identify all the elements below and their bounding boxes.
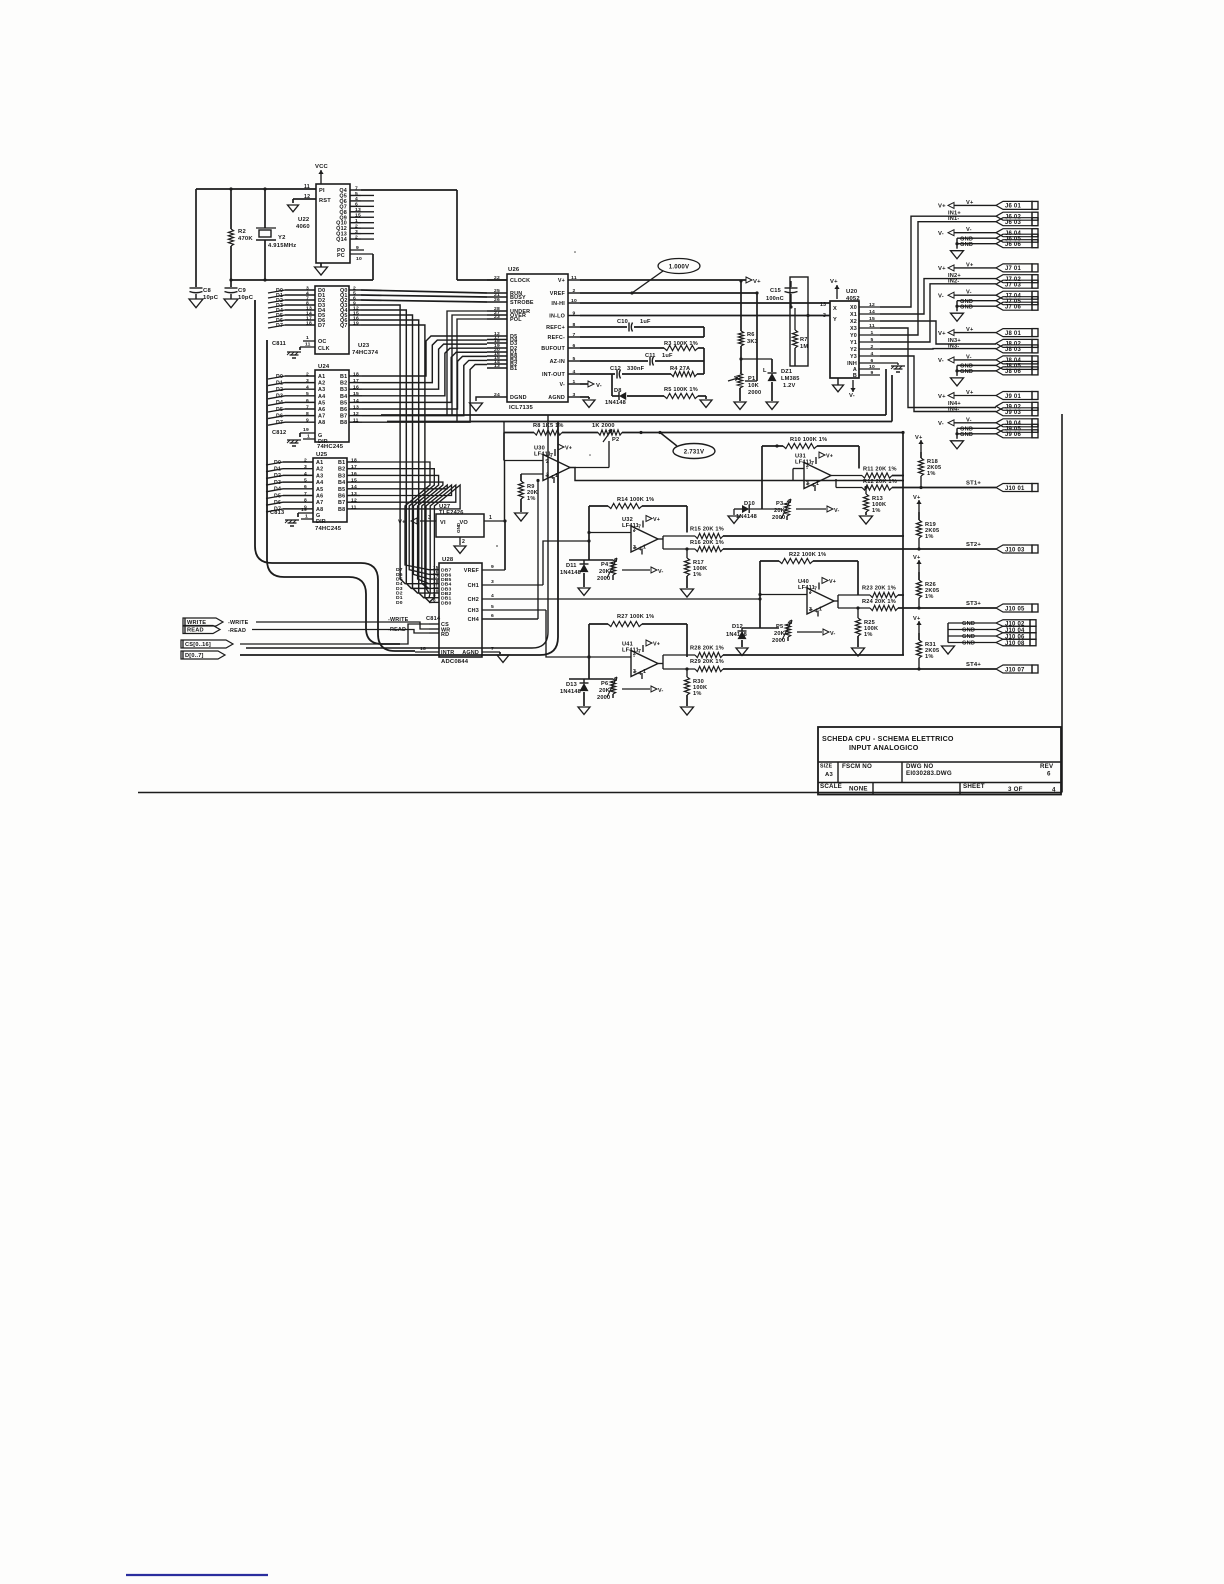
svg-text:4: 4 bbox=[639, 671, 642, 677]
svg-text:J6 03: J6 03 bbox=[1005, 220, 1021, 226]
svg-text:1N4148: 1N4148 bbox=[605, 400, 626, 406]
svg-text:V-: V- bbox=[938, 421, 944, 427]
svg-text:CH4: CH4 bbox=[468, 617, 479, 623]
svg-text:17: 17 bbox=[353, 378, 359, 384]
svg-text:6: 6 bbox=[304, 484, 307, 490]
svg-text:DZ1: DZ1 bbox=[781, 369, 792, 375]
svg-text:11: 11 bbox=[305, 342, 311, 348]
svg-text:R24 20K 1%: R24 20K 1% bbox=[862, 599, 896, 605]
svg-text:CH1: CH1 bbox=[468, 583, 479, 589]
svg-text:P3: P3 bbox=[776, 501, 783, 507]
svg-text:X: X bbox=[833, 306, 837, 312]
svg-text:R10 100K 1%: R10 100K 1% bbox=[790, 437, 827, 443]
svg-text:GND: GND bbox=[960, 432, 973, 438]
svg-text:R22 100K 1%: R22 100K 1% bbox=[789, 552, 826, 558]
svg-text:J7 03: J7 03 bbox=[1005, 283, 1021, 289]
svg-text:GND: GND bbox=[960, 305, 973, 311]
svg-text:11: 11 bbox=[351, 504, 357, 510]
svg-text:4: 4 bbox=[491, 593, 494, 599]
svg-text:1uF: 1uF bbox=[640, 319, 651, 325]
svg-text:R29 20K 1%: R29 20K 1% bbox=[690, 659, 724, 665]
svg-text:A4: A4 bbox=[318, 394, 325, 400]
svg-text:X1: X1 bbox=[850, 312, 857, 318]
svg-text:7: 7 bbox=[550, 453, 553, 459]
svg-text:J10 03: J10 03 bbox=[1005, 547, 1025, 553]
svg-text:REV: REV bbox=[1040, 763, 1054, 770]
svg-text:10pC: 10pC bbox=[203, 295, 219, 301]
svg-text:V+: V+ bbox=[398, 520, 406, 526]
svg-text:1%: 1% bbox=[693, 691, 702, 697]
svg-text:3: 3 bbox=[573, 392, 576, 398]
svg-text:7: 7 bbox=[638, 525, 641, 531]
svg-text:B7: B7 bbox=[338, 500, 345, 506]
svg-text:-WRITE: -WRITE bbox=[228, 620, 249, 626]
svg-text:3: 3 bbox=[806, 481, 809, 487]
svg-text:OC: OC bbox=[318, 339, 327, 345]
svg-text:2000: 2000 bbox=[597, 695, 610, 701]
svg-text:U23: U23 bbox=[358, 343, 370, 349]
svg-text:ST4+: ST4+ bbox=[966, 662, 981, 668]
svg-text:CH3: CH3 bbox=[468, 608, 479, 614]
svg-text:IN2-: IN2- bbox=[948, 279, 959, 285]
svg-text:4: 4 bbox=[355, 196, 358, 202]
svg-text:8: 8 bbox=[433, 598, 436, 603]
svg-text:4060: 4060 bbox=[296, 224, 310, 230]
svg-text:A3: A3 bbox=[318, 387, 325, 393]
svg-text:EI030283.DWG: EI030283.DWG bbox=[906, 770, 952, 777]
svg-text:13: 13 bbox=[355, 207, 361, 213]
svg-text:A8: A8 bbox=[318, 420, 325, 426]
svg-text:2: 2 bbox=[304, 457, 307, 463]
svg-text:-READ: -READ bbox=[388, 627, 406, 633]
svg-text:B8: B8 bbox=[338, 507, 345, 513]
svg-text:B4: B4 bbox=[340, 394, 347, 400]
svg-text:1%: 1% bbox=[927, 471, 936, 477]
svg-text:7: 7 bbox=[304, 491, 307, 497]
svg-text:18: 18 bbox=[306, 320, 312, 326]
svg-text:R6: R6 bbox=[747, 332, 755, 338]
svg-text:P4: P4 bbox=[601, 562, 609, 568]
svg-text:INTR: INTR bbox=[441, 650, 454, 656]
svg-text:R11 20K 1%: R11 20K 1% bbox=[863, 467, 897, 473]
svg-text:SIZE: SIZE bbox=[820, 764, 833, 770]
svg-text:B1: B1 bbox=[338, 460, 345, 466]
svg-text:CLOCK: CLOCK bbox=[510, 278, 530, 284]
svg-text:D0: D0 bbox=[396, 600, 403, 606]
svg-text:Y2: Y2 bbox=[278, 235, 286, 241]
svg-text:J7 06: J7 06 bbox=[1005, 305, 1021, 311]
svg-text:10K: 10K bbox=[748, 383, 760, 389]
svg-text:V-: V- bbox=[966, 290, 972, 296]
svg-text:13: 13 bbox=[353, 404, 359, 410]
svg-text:5: 5 bbox=[355, 191, 358, 197]
svg-text:CS[0..16]: CS[0..16] bbox=[185, 642, 211, 648]
svg-text:X0: X0 bbox=[850, 305, 857, 311]
svg-text:1: 1 bbox=[816, 481, 819, 487]
svg-text:V+: V+ bbox=[966, 262, 974, 268]
svg-text:3 OF: 3 OF bbox=[1008, 786, 1023, 793]
svg-text:6: 6 bbox=[871, 358, 874, 364]
svg-text:1: 1 bbox=[643, 669, 646, 675]
svg-text:5: 5 bbox=[306, 391, 309, 397]
svg-text:18: 18 bbox=[420, 646, 426, 652]
svg-text:LF411: LF411 bbox=[795, 460, 812, 466]
svg-text:2: 2 bbox=[546, 459, 549, 465]
svg-text:1N4148: 1N4148 bbox=[560, 570, 581, 576]
svg-text:ADC0844: ADC0844 bbox=[441, 659, 469, 665]
svg-text:V+: V+ bbox=[558, 278, 565, 284]
svg-text:330nF: 330nF bbox=[627, 366, 645, 372]
svg-text:9: 9 bbox=[573, 311, 576, 317]
svg-text:V+: V+ bbox=[913, 555, 921, 561]
svg-text:4052: 4052 bbox=[846, 296, 860, 302]
svg-text:B1: B1 bbox=[340, 374, 347, 380]
svg-text:4: 4 bbox=[573, 369, 576, 375]
svg-text:J8 06: J8 06 bbox=[1005, 369, 1021, 375]
svg-text:B8: B8 bbox=[340, 420, 347, 426]
svg-text:18: 18 bbox=[353, 371, 359, 377]
svg-text:IN4-: IN4- bbox=[948, 406, 959, 412]
svg-text:V-: V- bbox=[938, 231, 944, 237]
svg-text:R23 20K 1%: R23 20K 1% bbox=[862, 586, 896, 592]
svg-text:B7: B7 bbox=[340, 414, 347, 420]
svg-text:10: 10 bbox=[356, 256, 362, 262]
svg-text:1%: 1% bbox=[925, 534, 934, 540]
svg-text:GND: GND bbox=[960, 369, 973, 375]
svg-text:V+: V+ bbox=[829, 579, 836, 585]
svg-text:J6 01: J6 01 bbox=[1005, 204, 1021, 210]
svg-text:11: 11 bbox=[571, 275, 577, 281]
svg-text:ST3+: ST3+ bbox=[966, 601, 981, 607]
svg-text:7: 7 bbox=[355, 185, 358, 191]
svg-text:1%: 1% bbox=[864, 632, 873, 638]
svg-text:2000: 2000 bbox=[597, 576, 610, 582]
svg-text:2.731V: 2.731V bbox=[684, 449, 705, 456]
svg-text:CH2: CH2 bbox=[468, 597, 479, 603]
svg-text:D13: D13 bbox=[566, 682, 577, 688]
svg-text:26: 26 bbox=[494, 297, 500, 303]
svg-text:LM385: LM385 bbox=[781, 376, 800, 382]
svg-text:B2: B2 bbox=[338, 467, 345, 473]
svg-text:1: 1 bbox=[555, 473, 558, 479]
svg-text:A3: A3 bbox=[825, 772, 833, 778]
svg-text:A7: A7 bbox=[316, 500, 323, 506]
svg-text:B5: B5 bbox=[340, 400, 347, 406]
svg-text:3: 3 bbox=[809, 607, 812, 613]
svg-text:R7: R7 bbox=[800, 337, 808, 343]
svg-text:18: 18 bbox=[351, 457, 357, 463]
svg-text:TLE2426: TLE2426 bbox=[439, 510, 464, 516]
svg-text:2: 2 bbox=[806, 463, 809, 469]
svg-text:AGND: AGND bbox=[548, 395, 565, 401]
svg-text:9: 9 bbox=[306, 418, 309, 424]
svg-text:SCHEDA CPU - SCHEMA ELETTRICO: SCHEDA CPU - SCHEMA ELETTRICO bbox=[822, 735, 954, 743]
svg-text:8: 8 bbox=[306, 411, 309, 417]
svg-text:2: 2 bbox=[306, 371, 309, 377]
svg-text:A5: A5 bbox=[316, 487, 323, 493]
svg-text:19: 19 bbox=[303, 427, 309, 433]
svg-text:C9: C9 bbox=[238, 288, 246, 294]
svg-text:Q7: Q7 bbox=[340, 323, 348, 329]
svg-text:Y: Y bbox=[833, 317, 837, 323]
svg-text:6: 6 bbox=[355, 202, 358, 208]
svg-text:VCC: VCC bbox=[315, 164, 329, 170]
svg-text:V-: V- bbox=[658, 688, 664, 694]
svg-text:1: 1 bbox=[306, 335, 309, 341]
svg-text:R12 20K 1%: R12 20K 1% bbox=[863, 479, 897, 485]
svg-text:7: 7 bbox=[811, 461, 814, 467]
svg-text:R14 100K 1%: R14 100K 1% bbox=[617, 497, 654, 503]
svg-text:1uF: 1uF bbox=[662, 353, 673, 359]
svg-text:LF411: LF411 bbox=[798, 585, 815, 591]
svg-text:19: 19 bbox=[353, 320, 359, 326]
svg-text:VI: VI bbox=[440, 520, 446, 526]
svg-text:R4 27A: R4 27A bbox=[670, 366, 690, 372]
svg-text:C10: C10 bbox=[617, 319, 628, 325]
svg-text:R3 100K 1%: R3 100K 1% bbox=[664, 341, 698, 347]
svg-text:20K: 20K bbox=[599, 569, 611, 575]
svg-text:V+: V+ bbox=[938, 266, 946, 272]
svg-text:J8 03: J8 03 bbox=[1005, 347, 1021, 353]
svg-text:1: 1 bbox=[489, 515, 492, 521]
svg-text:C814: C814 bbox=[426, 616, 441, 622]
svg-text:1%: 1% bbox=[693, 572, 702, 578]
svg-text:A7: A7 bbox=[318, 414, 325, 420]
svg-text:74HC245: 74HC245 bbox=[317, 444, 344, 450]
svg-text:20K: 20K bbox=[774, 508, 786, 514]
svg-text:3: 3 bbox=[428, 515, 431, 521]
svg-text:6: 6 bbox=[1047, 771, 1051, 778]
svg-text:PI: PI bbox=[319, 188, 325, 194]
svg-text:12: 12 bbox=[869, 302, 875, 308]
svg-text:J10 01: J10 01 bbox=[1005, 486, 1025, 492]
svg-text:V-: V- bbox=[830, 631, 836, 637]
svg-text:-READ: -READ bbox=[228, 628, 246, 634]
svg-text:1: 1 bbox=[643, 545, 646, 551]
svg-text:C11: C11 bbox=[645, 353, 656, 359]
svg-text:9: 9 bbox=[356, 245, 359, 251]
svg-text:3: 3 bbox=[633, 545, 636, 551]
svg-text:Y1: Y1 bbox=[850, 340, 857, 346]
svg-text:R5 100K 1%: R5 100K 1% bbox=[664, 387, 698, 393]
svg-text:V+: V+ bbox=[938, 331, 946, 337]
svg-text:15: 15 bbox=[869, 316, 875, 322]
svg-text:4: 4 bbox=[304, 471, 307, 477]
svg-text:BUFOUT: BUFOUT bbox=[541, 346, 565, 352]
svg-text:2: 2 bbox=[355, 234, 358, 240]
svg-text:C8: C8 bbox=[203, 288, 211, 294]
svg-text:IN-LO: IN-LO bbox=[549, 314, 565, 320]
svg-text:V+: V+ bbox=[966, 390, 974, 396]
svg-text:1: 1 bbox=[819, 607, 822, 613]
svg-text:5: 5 bbox=[871, 337, 874, 343]
svg-text:P6: P6 bbox=[601, 681, 608, 687]
svg-text:V+: V+ bbox=[938, 204, 946, 210]
svg-text:V+: V+ bbox=[565, 446, 572, 452]
svg-text:11: 11 bbox=[353, 418, 359, 424]
svg-text:100nC: 100nC bbox=[766, 296, 784, 302]
svg-text:11: 11 bbox=[869, 323, 875, 329]
svg-text:A6: A6 bbox=[316, 494, 323, 500]
svg-text:V+: V+ bbox=[913, 616, 921, 622]
svg-text:D8: D8 bbox=[614, 388, 622, 394]
svg-text:9: 9 bbox=[871, 370, 874, 376]
svg-text:U25: U25 bbox=[316, 452, 328, 458]
svg-text:ST1+: ST1+ bbox=[966, 481, 981, 487]
svg-text:J6 06: J6 06 bbox=[1005, 242, 1021, 248]
svg-text:V-: V- bbox=[658, 569, 664, 575]
svg-text:LF411: LF411 bbox=[622, 523, 639, 529]
svg-text:B3: B3 bbox=[338, 473, 345, 479]
svg-text:SCALE: SCALE bbox=[820, 783, 842, 790]
svg-text:V-: V- bbox=[938, 294, 944, 300]
svg-text:CLK: CLK bbox=[318, 346, 330, 352]
svg-text:V+: V+ bbox=[966, 200, 974, 206]
svg-text:D7: D7 bbox=[318, 323, 325, 329]
svg-text:2: 2 bbox=[809, 589, 812, 595]
svg-text:1: 1 bbox=[871, 330, 874, 336]
svg-text:GND: GND bbox=[962, 621, 975, 627]
svg-text:10: 10 bbox=[571, 298, 577, 304]
svg-text:Y3: Y3 bbox=[850, 354, 857, 360]
svg-text:23: 23 bbox=[494, 314, 500, 320]
svg-text:V-: V- bbox=[966, 227, 972, 233]
svg-text:J10 07: J10 07 bbox=[1005, 667, 1025, 673]
svg-text:24: 24 bbox=[494, 392, 500, 398]
svg-text:B: B bbox=[853, 373, 857, 379]
svg-text:AGND: AGND bbox=[462, 650, 479, 656]
svg-text:ST2+: ST2+ bbox=[966, 542, 981, 548]
svg-text:13: 13 bbox=[351, 491, 357, 497]
svg-text:1%: 1% bbox=[527, 496, 536, 502]
svg-text:74HC245: 74HC245 bbox=[315, 526, 342, 532]
svg-text:22: 22 bbox=[494, 275, 500, 281]
svg-text:3: 3 bbox=[355, 229, 358, 235]
svg-text:V+: V+ bbox=[966, 327, 974, 333]
svg-text:DIR: DIR bbox=[316, 519, 326, 525]
svg-text:15: 15 bbox=[351, 478, 357, 484]
svg-text:2000: 2000 bbox=[748, 390, 761, 396]
svg-text:R8 1K5 1%: R8 1K5 1% bbox=[533, 423, 564, 429]
svg-text:4.915MHz: 4.915MHz bbox=[268, 243, 296, 249]
svg-text:V-: V- bbox=[834, 508, 840, 514]
svg-text:B3: B3 bbox=[340, 387, 347, 393]
svg-text:5: 5 bbox=[573, 356, 576, 362]
svg-text:V+: V+ bbox=[653, 642, 660, 648]
svg-text:A2: A2 bbox=[316, 467, 323, 473]
svg-text:1M: 1M bbox=[800, 344, 808, 350]
svg-text:READ: READ bbox=[187, 628, 204, 634]
svg-text:J10 08: J10 08 bbox=[1005, 641, 1025, 647]
svg-text:B6: B6 bbox=[338, 494, 345, 500]
svg-text:A5: A5 bbox=[318, 400, 325, 406]
svg-text:V-: V- bbox=[596, 383, 602, 389]
svg-text:AZ-IN: AZ-IN bbox=[550, 359, 565, 365]
svg-text:V+: V+ bbox=[915, 435, 923, 441]
svg-text:8: 8 bbox=[573, 322, 576, 328]
svg-text:1%: 1% bbox=[925, 654, 934, 660]
svg-text:U24: U24 bbox=[318, 364, 330, 370]
svg-text:NONE: NONE bbox=[849, 786, 868, 793]
svg-text:V+: V+ bbox=[753, 279, 761, 285]
svg-text:GND: GND bbox=[456, 522, 461, 533]
svg-text:4: 4 bbox=[1052, 787, 1056, 794]
svg-text:9: 9 bbox=[491, 564, 494, 570]
svg-text:19: 19 bbox=[301, 507, 307, 513]
svg-text:A1: A1 bbox=[316, 460, 323, 466]
svg-text:4: 4 bbox=[551, 475, 554, 481]
svg-text:D11: D11 bbox=[566, 563, 577, 569]
svg-text:J10 05: J10 05 bbox=[1005, 606, 1025, 612]
svg-text:V-: V- bbox=[966, 354, 972, 360]
svg-text:SHEET: SHEET bbox=[963, 783, 985, 790]
svg-text:1N4148: 1N4148 bbox=[726, 632, 747, 638]
svg-text:B1: B1 bbox=[510, 366, 517, 372]
svg-text:4: 4 bbox=[815, 609, 818, 615]
svg-text:15: 15 bbox=[353, 391, 359, 397]
svg-text:X3: X3 bbox=[850, 326, 857, 332]
svg-text:B2: B2 bbox=[340, 381, 347, 387]
svg-text:A4: A4 bbox=[316, 480, 323, 486]
svg-text:13: 13 bbox=[494, 363, 500, 369]
svg-text:DGND: DGND bbox=[510, 395, 527, 401]
svg-text:ICL7135: ICL7135 bbox=[509, 405, 533, 411]
svg-text:4: 4 bbox=[639, 547, 642, 553]
svg-text:5: 5 bbox=[491, 604, 494, 610]
svg-text:7: 7 bbox=[491, 646, 494, 652]
svg-text:1K 2000: 1K 2000 bbox=[592, 423, 615, 429]
svg-text:17: 17 bbox=[351, 464, 357, 470]
svg-text:12: 12 bbox=[353, 411, 359, 417]
svg-text:R28 20K 1%: R28 20K 1% bbox=[690, 646, 724, 652]
svg-text:14: 14 bbox=[353, 398, 359, 404]
svg-text:6: 6 bbox=[491, 613, 494, 619]
svg-text:C812: C812 bbox=[272, 430, 286, 436]
svg-text:1: 1 bbox=[305, 514, 308, 520]
svg-text:7: 7 bbox=[814, 587, 817, 593]
svg-text:IN1-: IN1- bbox=[948, 216, 959, 222]
svg-text:GND: GND bbox=[960, 242, 973, 248]
svg-text:PC: PC bbox=[337, 253, 345, 259]
svg-text:2000: 2000 bbox=[772, 515, 785, 521]
svg-text:3: 3 bbox=[304, 464, 307, 470]
svg-text:J8 01: J8 01 bbox=[1005, 331, 1021, 337]
svg-text:2: 2 bbox=[633, 651, 636, 657]
svg-text:2: 2 bbox=[573, 288, 576, 294]
svg-text:REFC+: REFC+ bbox=[546, 325, 565, 331]
svg-text:VREF: VREF bbox=[550, 291, 566, 297]
svg-text:DB0: DB0 bbox=[441, 600, 452, 606]
svg-text:R2: R2 bbox=[238, 229, 246, 235]
svg-text:U28: U28 bbox=[442, 557, 454, 563]
svg-text:J7 01: J7 01 bbox=[1005, 266, 1021, 272]
svg-text:P5: P5 bbox=[776, 624, 783, 630]
svg-text:FSCM NO: FSCM NO bbox=[842, 763, 872, 770]
svg-text:16: 16 bbox=[353, 385, 359, 391]
svg-text:1: 1 bbox=[307, 434, 310, 440]
svg-text:3: 3 bbox=[306, 378, 309, 384]
svg-text:1%: 1% bbox=[872, 508, 881, 514]
svg-text:470K: 470K bbox=[238, 236, 253, 242]
svg-text:20K: 20K bbox=[599, 688, 611, 694]
svg-text:IN3-: IN3- bbox=[948, 343, 959, 349]
svg-text:14: 14 bbox=[351, 484, 357, 490]
svg-text:J9 06: J9 06 bbox=[1005, 432, 1021, 438]
svg-text:V-: V- bbox=[559, 382, 565, 388]
svg-text:P2: P2 bbox=[612, 437, 619, 443]
svg-text:LF411: LF411 bbox=[534, 452, 551, 458]
svg-text:1%: 1% bbox=[925, 594, 934, 600]
